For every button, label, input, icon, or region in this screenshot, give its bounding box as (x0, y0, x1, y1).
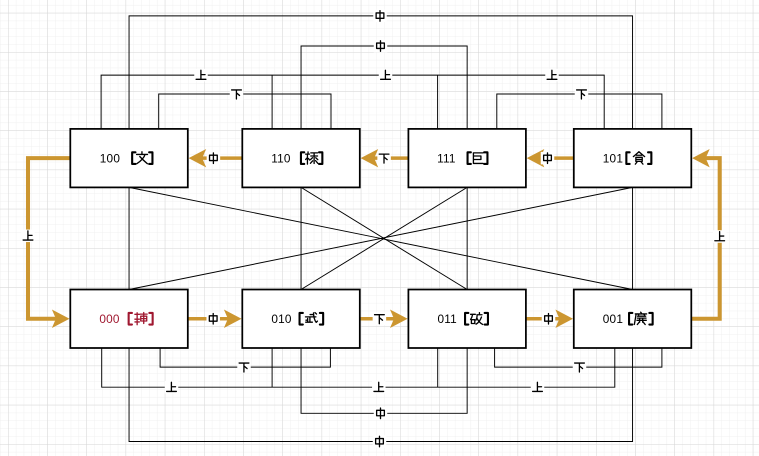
label xia on wire (230, 88, 244, 101)
wire diagonal 100-001 (129, 187, 633, 289)
label shang on wire (379, 69, 393, 82)
wire xia-top-left (100 top - 110 top) (159, 94, 331, 129)
wire shang-bottom stub 011 (437, 348, 439, 387)
label xia on wire (237, 361, 251, 374)
wire shang-bottom row (102, 348, 615, 387)
node 111 ju (408, 129, 526, 188)
label zhong on golden arrow (207, 152, 221, 165)
wire xia-top-right (111 top - 101 top) (497, 94, 662, 129)
label xia on golden arrow (377, 152, 391, 165)
label xia on wire (575, 88, 589, 101)
wire vertical 100-000 (128, 187, 130, 289)
label zhong on golden arrow (541, 152, 555, 165)
wire zhong-top-outer (100 top - 101 top) (129, 16, 633, 129)
node 101 tan (574, 129, 692, 188)
wire vertical 101-001 (632, 187, 634, 289)
label shang on golden arrow (21, 230, 35, 243)
label zhong on golden arrow (206, 313, 220, 326)
label zhong on wire (373, 435, 387, 448)
node 110 lu (242, 129, 359, 188)
node 000 fu (red) (70, 290, 188, 349)
label shang on wire (194, 69, 208, 82)
arrow 111 to 110 (xia) (373, 156, 408, 160)
svg-text:010: 010 (271, 312, 292, 326)
svg-text:011: 011 (437, 312, 456, 326)
svg-text:000: 000 (99, 312, 120, 326)
label zhong on wire (374, 407, 388, 420)
wire diagonal 010-111 (301, 187, 467, 289)
svg-text:101: 101 (603, 151, 623, 165)
label shang on wire (545, 69, 559, 82)
label xia on golden arrow (373, 313, 387, 326)
arrow 100 to 000 left route (shang) (28, 158, 70, 319)
label shang on wire (531, 381, 545, 394)
wire vertical 111-011 (466, 187, 468, 289)
wire diagonal 110-011 (301, 187, 467, 289)
svg-text:110: 110 (271, 151, 291, 165)
wire zhong-top-inner (110 top - 111 top) (301, 46, 467, 129)
wire xia-bottom-right (011 bottom - 001 bottom) (495, 348, 662, 367)
wire shang-top stub 110 (271, 75, 273, 129)
arrow 010 to 011 (xia) (360, 317, 395, 321)
label shang on wire (372, 381, 386, 394)
wire diagonal 000-101 (129, 187, 633, 289)
wire zhong-bottom-inner (010 bottom - 011 bottom) (301, 348, 467, 413)
node 001 lian (574, 290, 692, 349)
label zhong on wire (374, 40, 388, 53)
label zhong on golden arrow (542, 313, 556, 326)
svg-text:001: 001 (603, 312, 623, 326)
node 010 wu (242, 290, 359, 349)
node 100 wen (70, 129, 188, 188)
svg-text:111: 111 (437, 151, 456, 165)
label zhong on wire (373, 10, 387, 23)
label xia on wire (573, 361, 587, 374)
svg-text:100: 100 (100, 151, 121, 165)
wire shang-top stub 111 (437, 75, 439, 129)
node 011 po (408, 290, 526, 349)
label shang on golden arrow (713, 230, 727, 243)
arrow 110 to 100 (zhong) (201, 156, 242, 160)
wire xia-bottom-left (000 bottom - 010 bottom) (160, 348, 330, 367)
arrow 101 to 111 (zhong) (540, 156, 574, 160)
arrow 001 to 101 right route (shang) (691, 158, 719, 319)
label shang on wire (165, 381, 179, 394)
wire zhong-bottom-outer (000 bottom - 001 bottom) (129, 348, 633, 442)
wire shang-bottom stub 010 (271, 348, 273, 387)
wire vertical 110-010 (300, 187, 302, 289)
arrow 000 to 010 (zhong) (188, 317, 229, 321)
arrow 011 to 001 (zhong) (526, 317, 560, 321)
wire shang-top row (101, 75, 604, 129)
